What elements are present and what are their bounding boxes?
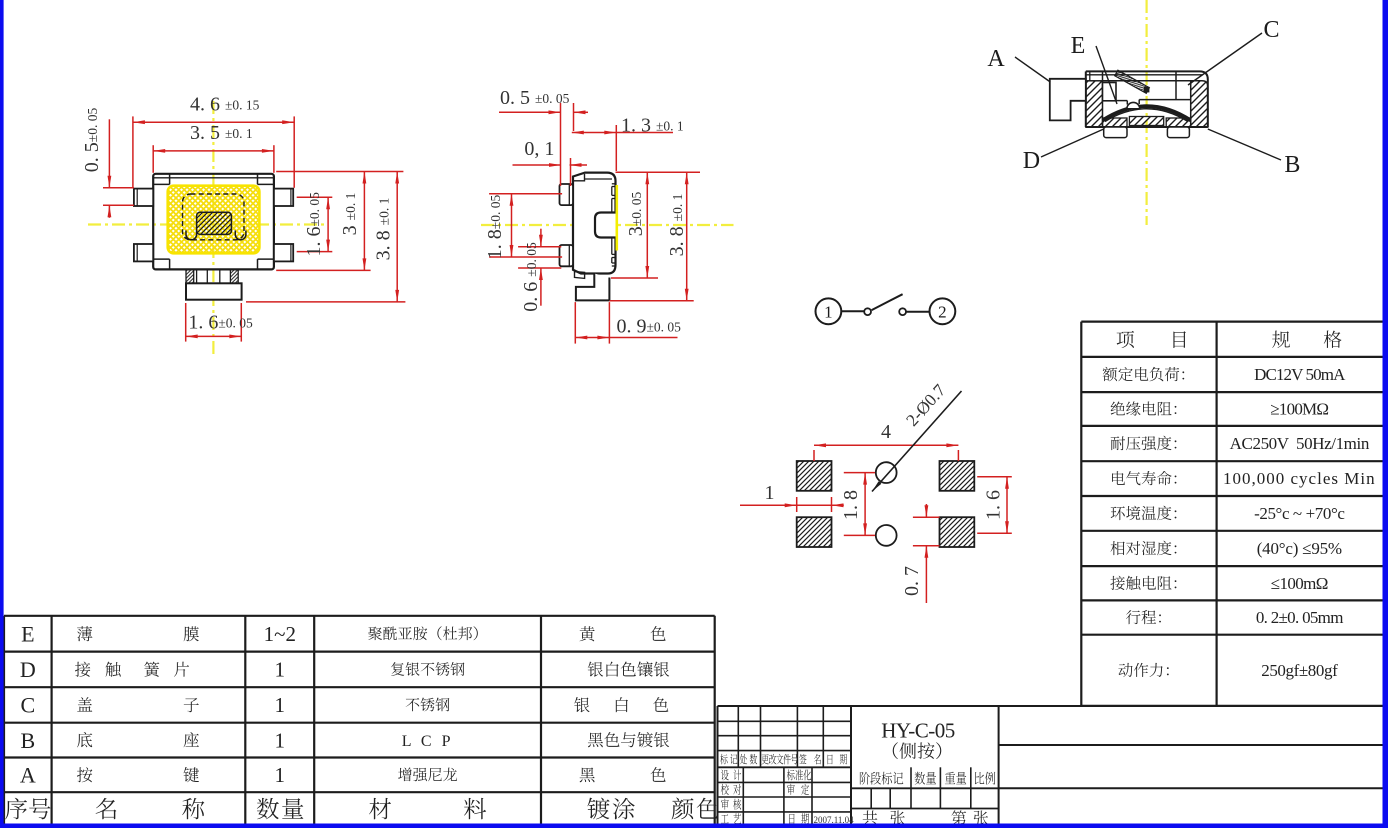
svg-text:1: 1 <box>275 728 286 752</box>
svg-text:3 ±0. 1: 3 ±0. 1 <box>339 193 361 236</box>
svg-text:100,000 cycles Min: 100,000 cycles Min <box>1223 469 1376 488</box>
svg-text:1: 1 <box>275 693 286 717</box>
svg-text:1. 3 ±0. 1: 1. 3 ±0. 1 <box>621 115 684 137</box>
svg-text:1. 8±0. 05: 1. 8±0. 05 <box>484 195 506 260</box>
svg-text:L C P: L C P <box>402 733 454 750</box>
svg-text:1. 6±0. 05: 1. 6±0. 05 <box>303 192 325 257</box>
svg-text:3. 8 ±0. 1: 3. 8 ±0. 1 <box>666 194 688 257</box>
svg-text:1: 1 <box>275 658 286 682</box>
svg-text:AC250V 50Hz/1min: AC250V 50Hz/1min <box>1230 434 1370 453</box>
svg-text:-25°c ~ +70°c: -25°c ~ +70°c <box>1254 504 1345 523</box>
svg-text:DC12V 50mA: DC12V 50mA <box>1254 365 1346 384</box>
svg-text:A: A <box>987 46 1005 72</box>
svg-text:1. 6±0. 05: 1. 6±0. 05 <box>188 312 253 334</box>
svg-text:C: C <box>1263 17 1279 43</box>
svg-text:2: 2 <box>938 303 947 322</box>
svg-text:0. 5 ±0. 05: 0. 5 ±0. 05 <box>500 87 570 109</box>
svg-text:C: C <box>20 693 35 718</box>
svg-text:0. 5±0. 05: 0. 5±0. 05 <box>81 108 103 173</box>
svg-text:0. 7: 0. 7 <box>901 566 923 596</box>
svg-text:D: D <box>20 657 36 682</box>
svg-text:0. 9±0. 05: 0. 9±0. 05 <box>617 316 682 338</box>
svg-text:3. 8 ±0. 1: 3. 8 ±0. 1 <box>373 198 395 261</box>
svg-text:B: B <box>1284 152 1300 178</box>
svg-text:3±0. 05: 3±0. 05 <box>625 192 647 237</box>
svg-text:4. 6 ±0. 15: 4. 6 ±0. 15 <box>190 94 260 116</box>
svg-text:1. 8: 1. 8 <box>840 490 862 520</box>
svg-text:0. 6 ±0. 05: 0. 6 ±0. 05 <box>520 242 542 312</box>
svg-text:≤100mΩ: ≤100mΩ <box>1271 574 1328 593</box>
svg-text:E: E <box>21 621 34 646</box>
svg-text:D: D <box>1023 148 1040 174</box>
svg-text:1. 6: 1. 6 <box>983 490 1005 520</box>
svg-text:1: 1 <box>824 303 833 322</box>
svg-text:≥100MΩ: ≥100MΩ <box>1270 400 1328 419</box>
svg-text:1: 1 <box>275 763 286 787</box>
svg-text:1: 1 <box>765 482 775 504</box>
svg-text:1~2: 1~2 <box>264 622 296 646</box>
svg-text:2007.11.04: 2007.11.04 <box>814 815 855 825</box>
svg-text:E: E <box>1071 33 1086 59</box>
svg-text:B: B <box>20 728 35 753</box>
svg-text:250gf±80gf: 250gf±80gf <box>1261 661 1338 680</box>
svg-text:3. 5 ±0. 1: 3. 5 ±0. 1 <box>190 122 253 144</box>
svg-text:A: A <box>20 763 36 788</box>
svg-text:0. 2±0. 05mm: 0. 2±0. 05mm <box>1256 608 1343 627</box>
svg-text:HY-C-05: HY-C-05 <box>881 719 955 743</box>
svg-text:4: 4 <box>881 421 891 443</box>
svg-text:0, 1: 0, 1 <box>524 138 554 160</box>
svg-text:(40°c) ≤95%: (40°c) ≤95% <box>1257 539 1342 558</box>
